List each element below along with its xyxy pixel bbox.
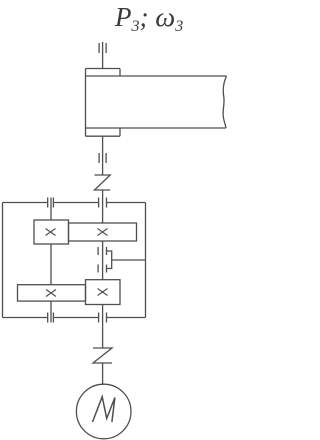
svg-text:P3; ω3: P3; ω3: [114, 2, 183, 35]
